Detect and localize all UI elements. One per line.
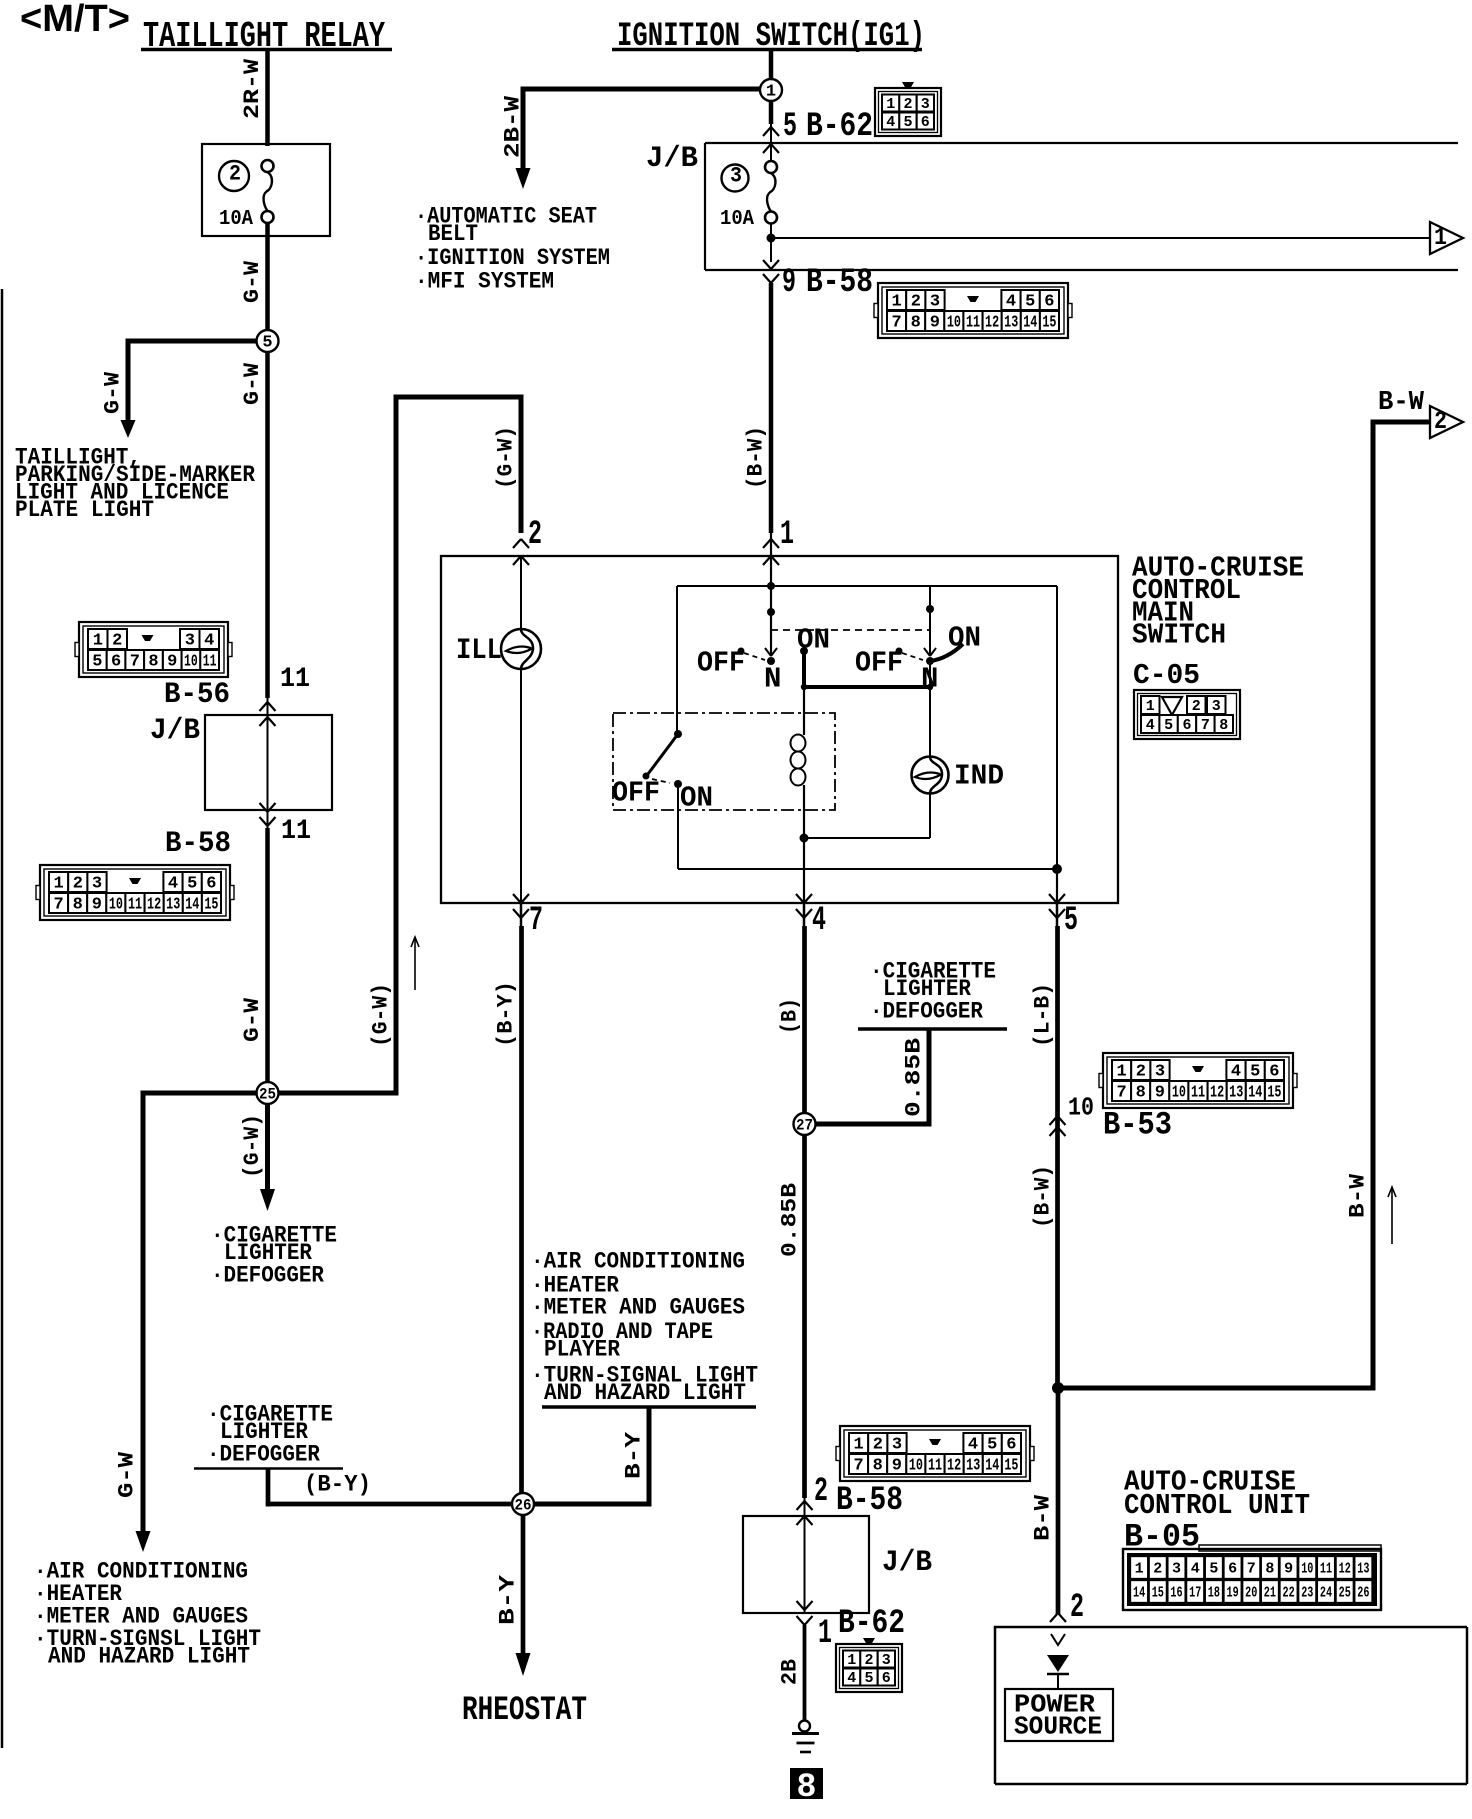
fuse circle 2 [219,161,249,191]
svg-text:14: 14 [1248,1084,1262,1103]
svg-text:2: 2 [873,1436,883,1455]
wire B-W down to unit pin 2 [1056,1388,1061,1614]
svg-text:·DEFOGGER: ·DEFOGGER [211,1262,324,1288]
svg-text:2: 2 [1434,407,1447,436]
connector B-05 icon [1199,1545,1381,1551]
svg-text:3: 3 [1155,1063,1165,1082]
relay coil [803,689,805,735]
wire (B) pin4 down to node 27 [803,903,806,926]
svg-text:B-W: B-W [1030,1494,1055,1541]
svg-text:(G-W): (G-W) [368,983,393,1047]
connector B-53 icon [1103,1053,1293,1108]
node 5 [265,352,270,698]
svg-text:3: 3 [882,1652,891,1669]
svg-text:J/B: J/B [646,142,698,176]
svg-text:2: 2 [911,293,921,312]
svg-text:CONTROL UNIT: CONTROL UNIT [1124,1489,1310,1522]
wire branch left from node 25 [143,1091,257,1096]
svg-text:15: 15 [1267,1084,1281,1103]
svg-text:ILL: ILL [456,634,502,668]
svg-text:18: 18 [1208,1585,1220,1602]
wire B-Y pin7 down to node 26 [520,903,523,926]
junction block J/B top [705,142,1458,144]
wire to right edge arrow 1 [771,237,1430,239]
connector crossing marks 2 B-58 [797,1501,813,1510]
svg-text:7: 7 [1247,1561,1256,1578]
svg-text:1: 1 [818,1615,832,1653]
svg-text:11: 11 [928,1457,942,1476]
svg-text:10A: 10A [219,208,253,231]
svg-text:1: 1 [891,293,901,312]
junction dot coil bottom [800,834,809,843]
page number 8 [790,1768,823,1799]
svg-text:6: 6 [882,1670,891,1687]
wire (G-W) down from node 25 [265,1104,270,1190]
wire ON contact to coil [802,651,806,689]
svg-text:2: 2 [814,1473,828,1511]
inner switch frame [677,585,1057,587]
svg-text:11: 11 [966,314,980,333]
svg-text:3: 3 [1212,698,1221,715]
svg-text:10: 10 [109,896,123,915]
svg-text:1: 1 [847,1652,856,1669]
svg-text:9: 9 [782,264,796,302]
relay enclosure dash-dot [613,713,835,810]
svg-text:3: 3 [92,875,102,894]
underline cigarette lighter defogger 3 [858,1027,1007,1031]
svg-text:12: 12 [1210,1084,1224,1103]
svg-text:7: 7 [529,902,543,940]
svg-text:2B-W: 2B-W [500,95,525,158]
wire G-W fuse to node 5 [265,223,270,332]
svg-text:6: 6 [206,875,216,894]
wire branch 0.85B to cigarette lighter [816,1122,932,1127]
pin 1 entry marks [763,539,779,548]
svg-text:3: 3 [921,96,930,113]
svg-text:5: 5 [1209,1561,1218,1578]
main switch pole A [765,648,777,656]
pin 5 exit marks [1049,894,1065,903]
svg-text:1: 1 [853,1436,863,1455]
wire ignition switch to node 1 [769,51,774,80]
svg-text:14: 14 [1023,314,1037,333]
svg-text:(G-W): (G-W) [240,1114,265,1178]
svg-text:8: 8 [1136,1084,1146,1103]
svg-text:4: 4 [847,1670,856,1687]
svg-text:23: 23 [1301,1585,1313,1602]
svg-text:(B-Y): (B-Y) [304,1471,371,1497]
svg-text:<M/T>: <M/T> [20,0,130,40]
wire G-W J/B to node 25 [267,698,269,828]
svg-text:13: 13 [1357,1561,1369,1578]
wire ILL branch inside box [520,556,522,903]
lamp ILL [501,629,541,669]
svg-text:6: 6 [1044,293,1054,312]
svg-text:8: 8 [73,896,83,915]
svg-text:7: 7 [130,653,140,672]
junction dot B-W [1052,1382,1064,1394]
connector B-58 icon top [878,283,1068,338]
auto-cruise control unit box [995,1627,1467,1784]
main switch pole B [929,586,931,656]
wire branch 2B-W [523,87,761,92]
svg-text:3: 3 [730,164,742,189]
junction block J/B bottom [743,1516,869,1613]
svg-text:2: 2 [1070,1589,1084,1627]
power source box [1005,1689,1113,1741]
svg-text:11: 11 [203,653,217,672]
svg-text:6: 6 [111,653,121,672]
svg-text:B-Y: B-Y [621,1431,646,1479]
wire node1 to J/B [769,101,774,124]
svg-text:4: 4 [886,114,895,131]
connector B-62 icon top [902,82,914,88]
svg-text:7: 7 [53,896,63,915]
svg-text:21: 21 [1264,1585,1276,1602]
svg-text:·METER AND GAUGES: ·METER AND GAUGES [531,1294,745,1320]
svg-text:13: 13 [1004,314,1018,333]
svg-text:8: 8 [797,1769,817,1807]
svg-text:7: 7 [1201,717,1210,734]
svg-text:10: 10 [184,653,198,672]
diode [1051,1634,1065,1645]
svg-text:J/B: J/B [150,714,200,748]
svg-text:27: 27 [796,1116,813,1134]
connector C-05 icon [1134,690,1240,739]
svg-text:3: 3 [185,632,195,651]
svg-text:10: 10 [1172,1084,1186,1103]
svg-text:0.85B: 0.85B [777,1183,802,1257]
svg-text:5: 5 [783,108,797,146]
svg-text:7: 7 [1116,1084,1126,1103]
svg-text:13: 13 [1229,1084,1243,1103]
svg-text:5: 5 [903,114,912,131]
relay switch [674,730,682,738]
svg-text:19: 19 [1227,1585,1239,1602]
svg-text:G-W: G-W [240,260,265,303]
svg-text:BELT: BELT [428,221,478,247]
svg-text:5: 5 [1164,717,1173,734]
svg-text:11: 11 [128,896,142,915]
node 27 [794,1113,816,1135]
lamp IND [912,757,949,794]
svg-text:B-Y: B-Y [495,1574,520,1625]
svg-text:RHEOSTAT: RHEOSTAT [462,1692,587,1730]
svg-text:5: 5 [864,1670,873,1687]
pin 2 entry marks [513,539,529,548]
wire IND to coil junction [929,793,931,838]
svg-text:5: 5 [1064,902,1078,940]
svg-text:2: 2 [73,875,83,894]
svg-text:8: 8 [148,653,158,672]
junction block J/B left [205,715,332,810]
wire pin1 inside box [770,586,772,656]
svg-text:1: 1 [53,875,63,894]
fuse element F3 [765,161,777,173]
svg-text:8: 8 [1219,717,1228,734]
svg-text:1: 1 [93,632,103,651]
svg-text:14: 14 [1133,1585,1145,1602]
svg-text:B-W: B-W [1378,388,1425,418]
svg-text:11: 11 [1320,1561,1332,1578]
svg-text:1: 1 [1434,223,1447,252]
svg-text:4: 4 [1231,1063,1241,1082]
wire pole B to IND lamp [929,661,931,757]
svg-text:(B-W): (B-W) [743,426,768,489]
svg-text:4: 4 [1146,717,1155,734]
svg-text:2: 2 [528,516,542,554]
underline defogger [194,1467,343,1470]
svg-text:15: 15 [1042,314,1056,333]
svg-text:4: 4 [812,902,826,940]
svg-text:14: 14 [985,1457,999,1476]
svg-text:·MFI SYSTEM: ·MFI SYSTEM [415,268,554,294]
svg-text:10: 10 [1301,1561,1313,1578]
svg-text:B-58: B-58 [836,1482,903,1520]
svg-text:G-W: G-W [240,997,265,1042]
svg-text:G-W: G-W [114,1451,139,1498]
svg-text:J/B: J/B [882,1546,932,1580]
wire (B-W) to main switch pin 1 [769,283,774,533]
svg-text:7: 7 [853,1457,863,1476]
fuse element F2 [262,160,274,172]
svg-text:B-62: B-62 [838,1605,905,1643]
svg-text:3: 3 [930,293,940,312]
wire pin5 inside box [1056,869,1058,903]
svg-text:4: 4 [204,632,214,651]
wire 0.85B node 27 down to J/B [802,1135,807,1498]
svg-text:1: 1 [780,516,794,554]
wire 2B to ground [803,1625,807,1721]
svg-text:2: 2 [1153,1561,1162,1578]
svg-text:(B-Y): (B-Y) [493,981,518,1047]
svg-text:AND HAZARD LIGHT: AND HAZARD LIGHT [544,1380,746,1406]
svg-text:6: 6 [1228,1561,1237,1578]
wire (L-B) pin5 down [1056,903,1059,926]
pin 4 exit marks [796,894,812,903]
connector crossing marks 10 B-53 [1050,1116,1066,1125]
svg-text:1: 1 [886,96,895,113]
connector crossing marks 1 B-62 [797,1601,813,1610]
svg-text:(G-W): (G-W) [493,426,518,489]
svg-text:2R-W: 2R-W [240,58,265,119]
off-page arrow 1 [1430,222,1463,254]
svg-text:B-W: B-W [1345,1173,1370,1218]
svg-text:6: 6 [1269,1063,1279,1082]
node 26 [512,1493,534,1515]
wire B-W horizontal join [1058,1386,1371,1391]
svg-text:26: 26 [515,1496,532,1514]
svg-text:·DEFOGGER: ·DEFOGGER [870,998,983,1024]
svg-text:25: 25 [1339,1585,1351,1602]
svg-text:(L-B): (L-B) [1030,983,1055,1047]
wire (B-Y) from defogger underline to node 26 [266,1469,271,1507]
svg-text:6: 6 [921,114,930,131]
svg-text:12: 12 [147,896,161,915]
connector B-62 icon bottom [863,1638,875,1644]
svg-text:SOURCE: SOURCE [1014,1711,1102,1741]
svg-text:16: 16 [1170,1585,1182,1602]
svg-text:C-05: C-05 [1133,659,1200,692]
svg-text:ON: ON [948,621,981,654]
direction arrow up small right [1391,1188,1393,1244]
svg-text:13: 13 [166,896,180,915]
svg-text:4: 4 [168,875,178,894]
svg-text:(B): (B) [777,998,802,1034]
svg-text:9: 9 [1155,1084,1165,1103]
svg-text:24: 24 [1320,1585,1332,1602]
node 1 [760,79,782,101]
svg-text:15: 15 [204,896,218,915]
svg-text:2: 2 [1136,1063,1146,1082]
svg-text:12: 12 [1339,1561,1351,1578]
svg-text:1: 1 [1146,698,1155,715]
svg-text:ON: ON [680,781,713,814]
svg-text:1: 1 [766,83,776,102]
auto-cruise control main switch box [441,556,1118,903]
svg-text:B-58: B-58 [806,264,873,302]
svg-text:(B-W): (B-W) [1030,1165,1055,1228]
svg-text:1: 1 [1116,1063,1126,1082]
connector crossing marks 11 [260,702,276,711]
junction dot inner frame bottom right [1052,864,1062,874]
svg-text:26: 26 [1357,1585,1369,1602]
svg-text:B-53: B-53 [1103,1106,1172,1143]
wire branch right from node 25 (G-W) up to main switch pin 2 [279,1091,399,1096]
svg-text:5: 5 [262,334,272,353]
svg-text:2: 2 [112,632,122,651]
svg-text:10: 10 [1068,1092,1094,1122]
off-page arrow 2 [1430,406,1463,438]
connector crossing marks 11 lower [260,803,276,812]
svg-text:1: 1 [1135,1561,1144,1578]
svg-text:7: 7 [891,314,901,333]
svg-text:9: 9 [92,896,102,915]
pin 7 exit marks [513,894,529,903]
connector B-58 icon bottom [840,1426,1030,1481]
svg-text:2: 2 [1192,698,1201,715]
svg-text:10: 10 [947,314,961,333]
svg-text:12: 12 [985,314,999,333]
svg-text:25: 25 [259,1085,276,1103]
svg-text:2: 2 [864,1652,873,1669]
wire B-Y from list down to node 26 [647,1407,652,1507]
underline turn-signal light list [542,1405,756,1409]
svg-text:5: 5 [187,875,197,894]
svg-text:9: 9 [1284,1561,1293,1578]
svg-text:6: 6 [1182,717,1191,734]
svg-text:B-56: B-56 [164,678,230,712]
svg-text:G-W: G-W [100,371,125,414]
svg-text:PLATE LIGHT: PLATE LIGHT [15,497,154,523]
connector B-56 icon [79,622,228,677]
svg-text:4: 4 [1006,293,1016,312]
svg-text:IND: IND [954,759,1004,792]
svg-text:·AIR CONDITIONING: ·AIR CONDITIONING [531,1248,745,1274]
dashed linkage between switches [771,629,930,631]
svg-text:14: 14 [185,896,199,915]
svg-text:15: 15 [1004,1457,1018,1476]
svg-text:8: 8 [911,314,921,333]
svg-text:12: 12 [947,1457,961,1476]
ground [799,1721,810,1732]
svg-text:·IGNITION SYSTEM: ·IGNITION SYSTEM [415,245,610,271]
svg-text:OFF: OFF [612,776,660,809]
svg-text:4: 4 [968,1436,978,1455]
connector B-58 icon left [40,865,230,920]
svg-text:5: 5 [1250,1063,1260,1082]
fuse circle 3 [722,165,749,192]
svg-text:10: 10 [909,1457,923,1476]
junction dots on pin1 line [767,582,775,590]
svg-text:13: 13 [966,1457,980,1476]
svg-text:9: 9 [167,653,177,672]
svg-text:20: 20 [1245,1585,1257,1602]
svg-text:9: 9 [892,1457,902,1476]
svg-text:5: 5 [92,653,102,672]
svg-text:3: 3 [1172,1561,1181,1578]
wire branch to taillight arrow [128,339,257,344]
svg-text:2: 2 [903,96,912,113]
svg-text:8: 8 [873,1457,883,1476]
node 25 [257,1082,279,1104]
unit pin 2 entry mark [1050,1613,1066,1622]
svg-text:AND HAZARD LIGHT: AND HAZARD LIGHT [48,1643,250,1669]
svg-text:·DEFOGGER: ·DEFOGGER [207,1441,320,1467]
svg-text:22: 22 [1283,1585,1295,1602]
svg-text:2B: 2B [777,1659,802,1685]
svg-text:PLAYER: PLAYER [544,1336,620,1362]
wire 2R-W taillight relay to dedicated fuse [265,51,270,146]
svg-text:11: 11 [280,664,310,695]
svg-text:B-58: B-58 [165,827,231,861]
svg-text:3: 3 [892,1436,902,1455]
svg-text:6: 6 [1006,1436,1016,1455]
svg-text:5: 5 [987,1436,997,1455]
svg-text:10A: 10A [720,208,754,231]
svg-text:B-62: B-62 [806,108,873,146]
wire through J/B left [267,719,269,808]
svg-text:11: 11 [281,816,311,847]
svg-text:0.85B: 0.85B [901,1038,926,1117]
svg-text:2: 2 [229,162,241,187]
direction arrow up small [414,938,416,990]
svg-text:17: 17 [1189,1585,1201,1602]
svg-text:N: N [764,662,781,695]
svg-text:9: 9 [930,314,940,333]
svg-text:15: 15 [1152,1585,1164,1602]
svg-text:G-W: G-W [240,362,265,405]
svg-text:SWITCH: SWITCH [1132,618,1226,651]
svg-text:8: 8 [1265,1561,1274,1578]
wire relay ON contact down [677,784,679,869]
svg-text:5: 5 [1025,293,1035,312]
dedicated fuse box [202,144,330,236]
wire B-W right vertical [1373,420,1430,425]
junction dot fuse output [770,224,772,263]
svg-text:11: 11 [1191,1084,1205,1103]
connector crossing marks 5 B-62 [763,127,779,136]
wire B-Y node 26 to rheostat [521,1515,526,1655]
connector crossing marks 9 B-58 [763,260,779,269]
svg-text:4: 4 [1191,1561,1200,1578]
